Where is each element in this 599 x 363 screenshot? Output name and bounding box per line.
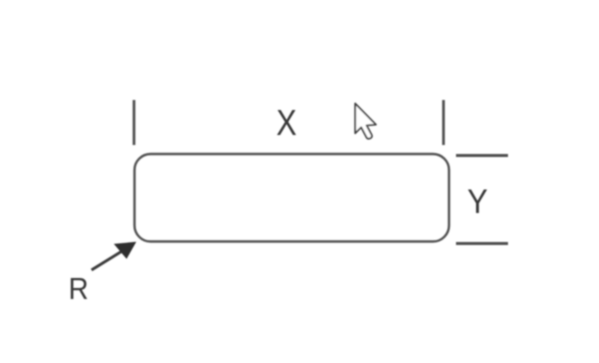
radius arrow line <box>92 251 124 271</box>
top height tick <box>456 154 508 157</box>
svg-text:Y: Y <box>467 183 488 221</box>
svg-text:R: R <box>69 272 89 306</box>
mouse cursor <box>355 104 376 139</box>
left width tick <box>133 100 136 145</box>
radius arrowhead <box>114 242 137 259</box>
svg-text:X: X <box>276 102 297 143</box>
right width tick <box>442 100 445 145</box>
rounded rectangle (shape being dimensioned) <box>135 154 450 242</box>
bottom height tick <box>456 242 508 245</box>
